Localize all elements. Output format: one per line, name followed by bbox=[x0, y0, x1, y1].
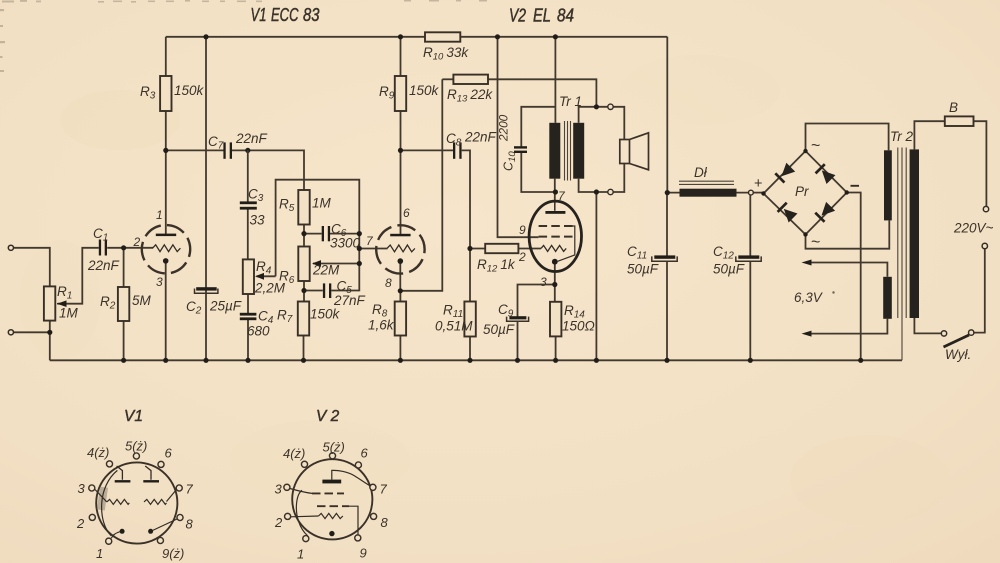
junction dot bridge top corner bbox=[803, 149, 807, 153]
wire C10 bottom link bbox=[521, 151, 555, 192]
wire top rail right end down to choke output bbox=[666, 37, 668, 193]
wire choke Dl leads bbox=[667, 192, 748, 194]
svg-text:Pr: Pr bbox=[795, 184, 809, 199]
wire Tr1 secondary bottom to speaker bbox=[579, 179, 608, 192]
wire Tr1 primary branch from top rail bbox=[554, 37, 556, 123]
svg-text:22nF: 22nF bbox=[464, 130, 497, 145]
svg-text:7: 7 bbox=[186, 482, 194, 497]
wire screen branch from top rail to pentode pin 9 bbox=[498, 37, 539, 237]
svg-text:3: 3 bbox=[156, 275, 163, 289]
V1 left anode lead bbox=[117, 466, 123, 480]
svg-text:V1: V1 bbox=[251, 5, 267, 25]
wire bridge diamond edges bbox=[764, 151, 847, 235]
speck artifact bbox=[832, 291, 834, 293]
V1 right anode bar bbox=[143, 480, 159, 482]
resistor R12 1k bbox=[485, 244, 518, 253]
switch Wyl terminal right bbox=[969, 330, 974, 335]
resistor R8 1.6k bbox=[395, 302, 406, 336]
diode D2 lower-left bbox=[778, 203, 798, 223]
wire R5 bottom to R6 top bbox=[303, 225, 305, 247]
V2 pin3 to g3 line bbox=[290, 489, 312, 494]
diode D4 lower-right bbox=[815, 202, 835, 222]
svg-text:3300: 3300 bbox=[330, 236, 361, 251]
svg-text:V1: V1 bbox=[124, 408, 143, 425]
svg-text:Dł: Dł bbox=[694, 165, 708, 180]
potentiometer R6 22M bbox=[298, 247, 309, 282]
V2 pin 5 bbox=[329, 453, 335, 459]
svg-text:EL: EL bbox=[533, 6, 551, 26]
svg-text:220V~: 220V~ bbox=[953, 221, 994, 236]
junction dot secondary top feedback tap bbox=[594, 104, 599, 109]
V2 g2 to pin 9 link bbox=[349, 506, 358, 535]
wire Tr1 primary bottom to pentode anode pin 7 bbox=[554, 179, 556, 203]
wire R13 right to Tr1 secondary tap bbox=[488, 79, 596, 107]
wire C6 line bbox=[304, 233, 359, 235]
pentode g1 zigzag bbox=[541, 245, 566, 251]
resistor R9 150k bbox=[395, 76, 406, 111]
Tr2 heater winding bbox=[883, 277, 892, 319]
V1 pin 8 bbox=[177, 514, 183, 520]
svg-text:2: 2 bbox=[133, 235, 141, 249]
junction dot secondary bottom ground tap bbox=[594, 189, 599, 194]
junction dot rail C4 bbox=[245, 358, 250, 363]
speaker terminal lower bbox=[608, 189, 613, 194]
V2 pin 1 bbox=[303, 536, 309, 542]
svg-text:150k: 150k bbox=[409, 83, 440, 98]
V1 pin 7 bbox=[176, 485, 182, 491]
junction dot bridge bottom corner bbox=[803, 232, 807, 236]
resistor R11 0.51M bbox=[464, 302, 475, 337]
wire switch to Tr2 primary bottom bbox=[914, 318, 941, 333]
V2 pin1 arc bbox=[296, 490, 307, 536]
wire R7 to ground bbox=[303, 336, 305, 361]
choke output terminal circle bbox=[749, 190, 754, 195]
V1 pin 4 bbox=[106, 461, 112, 467]
svg-text:6,3V: 6,3V bbox=[794, 290, 824, 305]
wire heater top lead bbox=[806, 263, 887, 277]
wire 220V lower terminal to switch bbox=[974, 249, 985, 333]
junction dot C8 / R12 / R11 bbox=[467, 246, 472, 251]
electrolytic C2 25uF bbox=[196, 287, 217, 290]
V1a grid zigzag bbox=[153, 245, 181, 252]
junction dot bridge plus corner bbox=[761, 191, 765, 195]
wire bridge top AC to Tr2 HT winding top bbox=[806, 124, 889, 152]
capacitor C5 27nF bbox=[323, 283, 325, 298]
V2 g1 zigzag bbox=[319, 513, 343, 518]
junction dot bridge minus corner bbox=[845, 190, 849, 194]
V1b grid zigzag bbox=[387, 245, 415, 252]
junction dot top rail R9 bbox=[398, 34, 403, 39]
wire C3 branch down from C7 junction bbox=[247, 150, 249, 202]
resistor R14 150ohm bbox=[550, 302, 561, 337]
junction dot choke node top rail bbox=[665, 190, 670, 195]
wire V1b grid line bbox=[359, 248, 387, 250]
junction dot pentode cathode bbox=[552, 282, 557, 287]
wire R3 branch from top rail bbox=[165, 37, 167, 76]
svg-text:1,6k: 1,6k bbox=[368, 318, 395, 333]
wire R8 leads bbox=[399, 291, 401, 361]
junction dot R5 bottom / C6 bbox=[301, 231, 306, 236]
wire V1b cathode to feedback corner bbox=[400, 79, 442, 290]
junction dot pentode anode / Tr1 bottom bbox=[553, 189, 558, 194]
V1 pin 2 bbox=[89, 514, 95, 520]
Tr1 secondary winding bbox=[573, 123, 584, 179]
wire R1 bottom to ground rail bbox=[49, 321, 51, 361]
speaker bbox=[620, 140, 630, 164]
svg-text:8: 8 bbox=[385, 276, 392, 290]
V1 pin 5 bbox=[133, 453, 139, 459]
choke Dl body bbox=[680, 189, 737, 197]
V2 pin 8 bbox=[371, 513, 377, 519]
input terminal upper bbox=[8, 245, 13, 250]
svg-text:3: 3 bbox=[78, 481, 86, 496]
Tr1 core bbox=[565, 121, 571, 181]
svg-text:9: 9 bbox=[360, 546, 367, 561]
svg-text:83: 83 bbox=[303, 5, 320, 25]
junction dot rail C9 bbox=[515, 358, 520, 363]
triode V1a envelope (dashed) bbox=[142, 225, 190, 273]
svg-text:6: 6 bbox=[165, 446, 173, 461]
svg-text:ECC: ECC bbox=[271, 5, 299, 25]
capacitor C6 3300 bbox=[322, 226, 324, 241]
wire R2 leads bbox=[123, 248, 125, 360]
svg-text:9(ż): 9(ż) bbox=[162, 546, 184, 561]
Tr2 HT winding bbox=[884, 150, 892, 220]
svg-text:2: 2 bbox=[518, 250, 526, 264]
wire C5 line bbox=[304, 290, 359, 292]
resistor R3 150k bbox=[160, 76, 171, 111]
junction dot rail speaker return bbox=[594, 358, 599, 363]
wire R4 to C4 bbox=[247, 294, 249, 314]
V2 g3 dashes bbox=[312, 492, 344, 494]
V1 pin8 to right cathode line bbox=[153, 519, 178, 531]
minus sign bbox=[851, 185, 860, 187]
svg-text:50µF: 50µF bbox=[713, 262, 745, 277]
svg-text:680: 680 bbox=[247, 324, 270, 339]
junction dot rail R14 bbox=[553, 358, 558, 363]
V2 anode bar bbox=[322, 480, 341, 484]
junction dot rail C12 bbox=[748, 358, 753, 363]
wire fuse to 220V upper terminal bbox=[974, 121, 987, 206]
resistor R10 33k (in top rail) bbox=[425, 32, 460, 41]
svg-text:3: 3 bbox=[275, 482, 283, 497]
svg-text:7: 7 bbox=[380, 482, 388, 497]
capacitor C3 33 bbox=[240, 201, 257, 204]
junction dot rail R2 bbox=[121, 358, 126, 363]
wire Tr1 secondary top to speaker bbox=[579, 107, 608, 123]
svg-text:6: 6 bbox=[361, 446, 369, 461]
wire R9 bottom to V1b anode bbox=[400, 111, 402, 236]
V1 pin 3 bbox=[89, 485, 95, 491]
V1 pin3 to left grid line bbox=[95, 490, 107, 502]
svg-text:~: ~ bbox=[811, 138, 820, 155]
electrolytic C9 50uF bbox=[509, 316, 526, 319]
svg-text:50µF: 50µF bbox=[627, 262, 659, 277]
svg-text:0,51M: 0,51M bbox=[435, 319, 473, 334]
V2 pin 3 bbox=[284, 484, 290, 490]
V2 pin2 to g1 line bbox=[291, 515, 319, 518]
heater arrow 1 bbox=[802, 260, 812, 266]
wire bridge minus to ground bbox=[847, 193, 861, 361]
potentiometer R1 bbox=[44, 286, 55, 320]
svg-text:2: 2 bbox=[274, 515, 283, 530]
triode V1b envelope (dashed) bbox=[376, 225, 424, 273]
junction dot R6 wiper tap bbox=[357, 261, 362, 266]
wire R3 bottom to V1a anode bbox=[165, 111, 167, 235]
V2 pin 6 bbox=[355, 462, 361, 468]
svg-text:4(ż): 4(ż) bbox=[87, 445, 109, 460]
wire R12 to pentode grid bbox=[470, 248, 541, 250]
switch Wyl terminal left bbox=[941, 331, 946, 336]
resistor R2 5M bbox=[118, 287, 129, 321]
svg-text:5M: 5M bbox=[132, 293, 152, 308]
resistor R5 1M bbox=[298, 190, 309, 225]
pentode g2 dashes bbox=[539, 236, 573, 238]
svg-text:1: 1 bbox=[297, 547, 304, 562]
fuse B bbox=[945, 116, 974, 126]
pentode g3 to cathode link bbox=[558, 226, 575, 261]
V1 pin7 to right grid line bbox=[167, 490, 177, 502]
svg-text:5(ż): 5(ż) bbox=[323, 440, 345, 455]
wire C10 top link bbox=[521, 107, 555, 147]
electrolytic C12 50uF bbox=[738, 255, 759, 258]
junction dot top rail screen branch bbox=[495, 34, 500, 39]
svg-text:2200: 2200 bbox=[497, 114, 511, 142]
wire V1a cathode to ground bbox=[165, 262, 167, 360]
svg-text:150k: 150k bbox=[310, 307, 341, 322]
220V terminal lower bbox=[982, 243, 987, 248]
wire R9 branch from top rail bbox=[400, 37, 402, 76]
junction dot R9 bottom / C8 bbox=[398, 148, 403, 153]
svg-text:1M: 1M bbox=[59, 306, 79, 321]
wire R13 left lead bbox=[442, 78, 453, 80]
junction dot grid tap bbox=[357, 246, 362, 251]
svg-text:150Ω: 150Ω bbox=[562, 319, 595, 334]
220V terminal upper bbox=[983, 206, 988, 211]
wire R1 wiper to C1 bbox=[58, 248, 99, 304]
V1a anode plate bbox=[156, 234, 176, 237]
V1 pin 9 bbox=[157, 537, 163, 543]
junction dot after C7 bbox=[245, 148, 250, 153]
junction dot rail R7 bbox=[301, 358, 306, 363]
svg-text:1: 1 bbox=[96, 546, 103, 561]
junction dot rail bridge minus bbox=[858, 358, 863, 363]
V2 anode lead to pin 7 bbox=[332, 470, 371, 486]
diode D3 upper-right bbox=[816, 164, 836, 184]
svg-text:8: 8 bbox=[381, 515, 389, 530]
wire C7 to R5 corner bbox=[232, 150, 304, 190]
resistor R13 22k bbox=[453, 75, 488, 84]
svg-text:4(ż): 4(ż) bbox=[283, 446, 305, 461]
tube socket V1 outline bbox=[96, 462, 177, 543]
wire top B+ rail bbox=[166, 36, 668, 38]
svg-text:33: 33 bbox=[250, 213, 266, 228]
top edge print remnants bbox=[2, 0, 487, 3]
choke Dl laminations bbox=[679, 181, 734, 184]
diode D1 upper-left bbox=[775, 163, 795, 183]
svg-text:50µF: 50µF bbox=[483, 322, 515, 337]
resistor R7 150k bbox=[298, 302, 309, 336]
wire C4 to ground rail bbox=[247, 319, 249, 361]
svg-text:V2: V2 bbox=[509, 6, 526, 26]
V1 right grid zigzag bbox=[144, 499, 166, 504]
V1 left anode bar bbox=[115, 480, 131, 482]
wire Tr2 primary top to fuse bbox=[914, 121, 944, 149]
wire bottom ground rail bbox=[50, 359, 902, 361]
V2 cathode dot bbox=[329, 531, 334, 536]
wire C1 to V1a grid pin 2 bbox=[107, 247, 153, 249]
capacitor C4 680 bbox=[240, 313, 257, 316]
V1 shaded patch artifact bbox=[97, 487, 108, 511]
svg-text:1M: 1M bbox=[312, 196, 332, 211]
wire C7 line from R3 bottom junction bbox=[166, 149, 224, 151]
wire V1b cathode down bbox=[399, 263, 401, 291]
wire R11 bottom bbox=[469, 337, 471, 361]
svg-text:Wył.: Wył. bbox=[945, 347, 971, 362]
junction dot R3 bottom bbox=[163, 148, 168, 153]
wire heater bottom lead bbox=[806, 319, 887, 334]
svg-text:+: + bbox=[754, 176, 762, 192]
svg-text:22nF: 22nF bbox=[87, 258, 120, 273]
heater arrow 2 bbox=[802, 331, 812, 337]
V1 pin1 to left cathode line bbox=[111, 532, 120, 539]
pentode anode plate bbox=[545, 211, 565, 214]
wire input to R1 top bbox=[13, 248, 49, 287]
V1 left grid zigzag bbox=[107, 499, 129, 504]
pentode g3 dashes bbox=[539, 225, 573, 227]
wire cathode to C9 bbox=[518, 285, 555, 318]
junction dot rail R11 bbox=[467, 358, 472, 363]
wire C11 branch bbox=[666, 193, 668, 361]
wire C3 to R4 bbox=[247, 208, 249, 259]
svg-text:8: 8 bbox=[186, 517, 194, 532]
capacitor C10 2200 (across Tr1 primary) bbox=[514, 146, 527, 148]
svg-text:25µF: 25µF bbox=[209, 299, 242, 314]
svg-text:1: 1 bbox=[156, 208, 163, 222]
wire C9 to ground bbox=[517, 322, 519, 361]
svg-text:3: 3 bbox=[540, 275, 547, 289]
potentiometer R4 2.2M bbox=[243, 259, 254, 294]
junction dot rail R8 bbox=[398, 358, 403, 363]
speaker terminal upper bbox=[608, 104, 613, 109]
junction dot V1b cathode bbox=[398, 288, 403, 293]
junction dot rail V1a cathode bbox=[163, 358, 168, 363]
svg-text:22M: 22M bbox=[312, 263, 340, 278]
junction dot top rail C2 tap bbox=[203, 34, 208, 39]
wire ground input to R1 bottom lead bbox=[13, 331, 49, 333]
svg-text:84: 84 bbox=[557, 6, 574, 26]
svg-text:5(ż): 5(ż) bbox=[125, 439, 147, 454]
V1a cathode dot bbox=[163, 258, 169, 264]
svg-text:R1322k: R1322k bbox=[447, 87, 493, 105]
V1 pin1 arc to left anode bbox=[102, 470, 118, 535]
electrolytic C11 50uF bbox=[654, 255, 675, 258]
junction dot R6 bottom / C5 bbox=[301, 288, 306, 293]
V2 pin 2 bbox=[285, 513, 291, 519]
junction dot rail C11 bbox=[664, 358, 669, 363]
V1b anode plate bbox=[390, 234, 410, 237]
svg-text:Tr 1: Tr 1 bbox=[559, 94, 582, 109]
V2 pin 9 bbox=[355, 535, 361, 541]
svg-text:B: B bbox=[949, 100, 958, 115]
wire speaker return to ground bbox=[595, 192, 597, 360]
wire R6 bottom to R7 bbox=[303, 281, 305, 302]
V1 pin 6 bbox=[158, 461, 164, 467]
V2 g2 dashes bbox=[317, 505, 349, 507]
wire C8 line from R9 bottom bbox=[401, 149, 454, 151]
wire C8 right down to R12/R11 bbox=[462, 150, 470, 301]
svg-text:22nF: 22nF bbox=[235, 131, 268, 146]
Tr2 core bbox=[898, 148, 906, 319]
Tr2 primary winding bbox=[910, 149, 919, 318]
junction dot C6 right bbox=[357, 231, 362, 236]
svg-text:R1033k: R1033k bbox=[423, 45, 469, 63]
capacitor C7 22nF bbox=[223, 142, 225, 158]
V1 left cathode dot bbox=[120, 529, 125, 534]
capacitor C8 22nF bbox=[453, 142, 455, 158]
wire C2 branch from top rail to ground bbox=[205, 37, 207, 361]
svg-text:9: 9 bbox=[519, 223, 526, 237]
V1 right anode lead bbox=[145, 466, 151, 480]
svg-text:150k: 150k bbox=[174, 83, 205, 98]
V1 pin 1 bbox=[106, 538, 112, 544]
svg-text:6: 6 bbox=[403, 206, 410, 220]
V1 right cathode dot bbox=[148, 529, 153, 534]
Tr1 primary winding bbox=[549, 123, 560, 179]
pentode V2 envelope bbox=[529, 201, 581, 271]
input terminal lower bbox=[8, 330, 13, 335]
svg-text:V 2: V 2 bbox=[316, 408, 340, 425]
V1b cathode dot bbox=[398, 258, 404, 264]
svg-text:Tr 2: Tr 2 bbox=[890, 129, 913, 144]
junction dot C1/R2/grid bbox=[121, 245, 126, 250]
switch Wyl lever bbox=[944, 335, 970, 347]
junction dot rail C2 bbox=[203, 358, 208, 363]
wire R4 wiper from rectangle left bbox=[257, 275, 276, 277]
wire C12 branch bbox=[749, 195, 751, 360]
tube socket V2 outline bbox=[292, 459, 372, 539]
wire R14 leads bbox=[554, 285, 557, 361]
svg-text:~: ~ bbox=[811, 234, 820, 251]
V2 pin 7 bbox=[370, 484, 376, 490]
wire bridge bottom AC to Tr2 HT winding bottom bbox=[806, 220, 890, 248]
wire pentode cathode down bbox=[554, 264, 556, 285]
svg-text:2: 2 bbox=[76, 516, 85, 531]
left edge artifacts bbox=[0, 9, 5, 72]
wire feedback rectangle top and sides bbox=[276, 180, 360, 292]
junction dot ground input bbox=[47, 330, 52, 335]
wire R6 wiper line bbox=[313, 263, 359, 265]
V2 pin 4 bbox=[301, 461, 307, 467]
junction dot Tr1 primary top rail bbox=[553, 34, 558, 39]
pentode cathode dot bbox=[552, 259, 558, 265]
wire choke to bridge plus corner bbox=[754, 192, 764, 194]
capacitor C1 22nF bbox=[99, 240, 101, 256]
